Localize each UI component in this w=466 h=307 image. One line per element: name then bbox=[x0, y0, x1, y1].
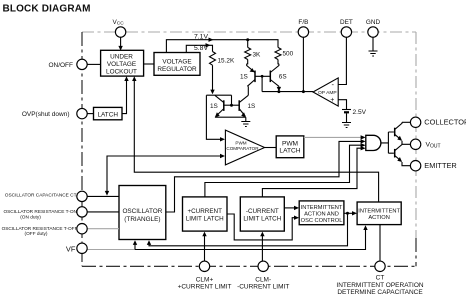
svg-text:LATCH: LATCH bbox=[97, 112, 118, 119]
svg-text:OSC CONTROL: OSC CONTROL bbox=[301, 218, 343, 224]
wire: comparator top input feed bbox=[206, 95, 221, 139]
svg-text:DET: DET bbox=[340, 19, 353, 26]
wire: output node line to op-amp bbox=[262, 91, 313, 93]
pin F/B bbox=[298, 27, 308, 37]
wire: F/B drop to output node bbox=[302, 37, 304, 91]
svg-text:15.2K: 15.2K bbox=[218, 57, 235, 64]
wire: CT pin to oscillator bbox=[87, 195, 119, 197]
svg-text:6S: 6S bbox=[279, 73, 287, 80]
wire: lower pair base tie bbox=[224, 104, 239, 106]
svg-text:GND: GND bbox=[366, 19, 381, 26]
wire: lower pair emitter tie to ground bbox=[215, 117, 246, 121]
pin CT left bbox=[77, 191, 87, 201]
svg-text:VOUT: VOUT bbox=[426, 142, 441, 150]
svg-text:LATCH: LATCH bbox=[279, 148, 300, 155]
svg-text:ON/OFF: ON/OFF bbox=[48, 62, 73, 69]
svg-text:COLLECTOR: COLLECTOR bbox=[424, 118, 466, 127]
svg-text:(ON duty): (ON duty) bbox=[20, 214, 41, 220]
wire: bus2 osc arrow to intermittent wire junction bbox=[149, 213, 348, 246]
wire: vout rail bbox=[402, 141, 410, 145]
svg-text:LIMIT LATCH: LIMIT LATCH bbox=[243, 215, 281, 222]
wire: +CLL output to INT-AND-OSC input2 bbox=[227, 214, 296, 240]
pin EMITTER bbox=[410, 161, 420, 171]
transistor Q1 output upper bbox=[394, 128, 396, 137]
wire: comparator to PWM latch bbox=[265, 147, 277, 149]
svg-text:LOCKOUT: LOCKOUT bbox=[106, 68, 137, 75]
svg-text:VOLTAGE: VOLTAGE bbox=[107, 61, 136, 68]
resistor 3K bbox=[245, 47, 251, 59]
svg-text:CT: CT bbox=[376, 275, 385, 282]
wire: DET to op-amp minus bbox=[338, 37, 346, 84]
svg-text:COMPARATOR: COMPARATOR bbox=[226, 146, 259, 151]
wire: -CLL output to INT-AND-OSC input1 bbox=[284, 207, 295, 209]
wire: VF riser into oscillator bottom bbox=[134, 243, 136, 249]
wire: CLM- riser into -CLL bbox=[261, 235, 263, 261]
svg-text:CLM+: CLM+ bbox=[196, 276, 214, 283]
battery 2.5V bbox=[342, 109, 351, 111]
svg-text:3K: 3K bbox=[253, 52, 262, 59]
box: +CURRENT LIMIT LATCH bbox=[183, 197, 228, 231]
wire: mirror tap line bbox=[206, 95, 231, 105]
svg-text:1S: 1S bbox=[240, 73, 248, 80]
wire: oscillator output to bus and AND input2 bbox=[166, 141, 361, 212]
wire: comparator bottom input feed from CT line bbox=[107, 156, 222, 192]
box: UNDER VOLTAGE LOCKOUT bbox=[101, 50, 144, 76]
svg-text:INTERMITTENT: INTERMITTENT bbox=[301, 205, 343, 211]
wire: UVLO to VOLTAGE REGULATOR bbox=[144, 63, 154, 65]
ground (GND pin) bbox=[369, 51, 378, 56]
svg-text:CLM-: CLM- bbox=[255, 276, 271, 283]
svg-text:EMITTER: EMITTER bbox=[424, 161, 456, 170]
wire: PWM latch to AND gate input1 (gray) bbox=[304, 136, 361, 138]
AND gate bbox=[366, 135, 381, 150]
wire: bus to INTERMITTENT ACTION bottom bbox=[135, 228, 366, 250]
box: OSCILLATOR (TRIANGLE) bbox=[119, 186, 166, 240]
svg-text:UNDER: UNDER bbox=[110, 54, 133, 61]
svg-text:OP AMP: OP AMP bbox=[318, 90, 337, 96]
wire: ON/OFF to UVLO bbox=[87, 63, 100, 65]
pin CLM+ bbox=[199, 261, 209, 271]
pin GND bbox=[368, 27, 378, 37]
box: LATCH bbox=[94, 107, 123, 119]
ground (mirror) bbox=[241, 122, 250, 127]
pin ON/OFF bbox=[77, 59, 87, 69]
wire: battery to ground bbox=[346, 113, 348, 122]
svg-text:(TRIANGLE): (TRIANGLE) bbox=[124, 216, 160, 223]
transistor 1S lower-left bbox=[223, 100, 225, 111]
comparator PWM bbox=[225, 130, 264, 165]
wire: collector rail bbox=[402, 121, 410, 123]
svg-text:1S: 1S bbox=[210, 103, 218, 110]
svg-text:+CURRENT LIMIT: +CURRENT LIMIT bbox=[178, 283, 232, 290]
wire: 5.8V line to 15.2K bbox=[186, 45, 212, 52]
svg-text:+CURRENT: +CURRENT bbox=[187, 208, 222, 215]
wire: OVP to LATCH bbox=[87, 113, 93, 115]
svg-text:5.8V: 5.8V bbox=[194, 45, 208, 52]
svg-text:BLOCK DIAGRAM: BLOCK DIAGRAM bbox=[3, 3, 91, 14]
wire: 3K to 1S collector bbox=[247, 60, 248, 64]
wire: upper mirror base tie with drop to output node bbox=[255, 76, 270, 91]
svg-text:INTERMITTENT OPERATION: INTERMITTENT OPERATION bbox=[336, 282, 423, 289]
svg-text:ACTION AND: ACTION AND bbox=[304, 211, 339, 217]
wire: GND pin to ground bbox=[372, 37, 374, 50]
svg-text:-CURRENT: -CURRENT bbox=[246, 208, 279, 215]
wire: VF pin (gray) bbox=[87, 249, 135, 251]
wire: AND output to output transistors bbox=[381, 132, 394, 153]
svg-text:ACTION: ACTION bbox=[368, 215, 390, 221]
wire: LATCH up into UVLO bbox=[122, 80, 127, 114]
transistor 1S upper bbox=[254, 71, 256, 83]
wire: upper 1S emitter to lower mirror collector bbox=[247, 86, 249, 95]
svg-text:INTERMITTENT: INTERMITTENT bbox=[358, 209, 400, 215]
wire: 15.2K down to mirror node bbox=[212, 65, 214, 91]
svg-text:7.1V: 7.1V bbox=[194, 34, 208, 41]
pin OVP bbox=[77, 108, 87, 118]
transistor 6S upper bbox=[269, 71, 271, 83]
svg-text:DETERMINE CAPACITANCE: DETERMINE CAPACITANCE bbox=[337, 289, 423, 296]
wire: -CLL top to bus and AND input4 bbox=[262, 148, 361, 197]
svg-text:VOLTAGE: VOLTAGE bbox=[162, 58, 191, 65]
svg-text:1S: 1S bbox=[248, 103, 256, 110]
svg-text:OSCILLATOR RESISTANCE T-OFF: OSCILLATOR RESISTANCE T-OFF bbox=[2, 226, 78, 232]
wire: Vcc drop into UVLO bbox=[120, 37, 122, 47]
svg-text:OSCILLATOR RESISTANCE T-ON: OSCILLATOR RESISTANCE T-ON bbox=[3, 209, 77, 215]
svg-text:VF: VF bbox=[66, 244, 76, 253]
box: PWM LATCH bbox=[276, 136, 304, 158]
pin CT bottom bbox=[375, 261, 385, 271]
svg-text:OSCILLATOR: OSCILLATOR bbox=[122, 208, 162, 215]
pin T-ON bbox=[77, 207, 87, 217]
op-amp U1 bbox=[313, 78, 338, 106]
pin DET bbox=[341, 27, 351, 37]
svg-text:PWM: PWM bbox=[235, 140, 246, 145]
svg-text:OVP(shut down): OVP(shut down) bbox=[22, 111, 70, 118]
wire: 7.1V rail bbox=[166, 40, 278, 53]
wire: 500 to 6S collector bbox=[277, 60, 280, 64]
svg-text:LIMIT LATCH: LIMIT LATCH bbox=[186, 215, 224, 222]
IC boundary dash-dot frame bbox=[82, 32, 416, 238]
wire: emitter rail bbox=[402, 162, 410, 166]
svg-text:OSCILLATOR CAPACITANCE CT: OSCILLATOR CAPACITANCE CT bbox=[5, 193, 77, 199]
wire: CLM+ riser into +CLL bbox=[204, 235, 206, 261]
wire: T-ON pin to oscillator bbox=[87, 211, 119, 213]
transistor 1S lower-right bbox=[238, 100, 240, 111]
resistor 15.2K bbox=[210, 52, 216, 66]
svg-text:F/B: F/B bbox=[298, 19, 308, 26]
svg-text:REGULATOR: REGULATOR bbox=[157, 66, 197, 73]
pin VF bbox=[77, 243, 87, 253]
resistor 500 bbox=[275, 47, 281, 59]
svg-text:500: 500 bbox=[283, 51, 294, 58]
wire: T-OFF pin to oscillator (gray) bbox=[87, 228, 119, 230]
pin COLLECTOR bbox=[410, 117, 420, 127]
box: -CURRENT LIMIT LATCH bbox=[240, 197, 284, 231]
svg-text:2.5V: 2.5V bbox=[353, 109, 367, 116]
wire: CT bottom riser into INTERMITTENT ACTION bbox=[379, 225, 381, 262]
pin T-OFF bbox=[77, 224, 87, 234]
pin Vcc bbox=[115, 27, 125, 37]
pin CLM- bbox=[258, 261, 268, 271]
pin VOUT bbox=[410, 139, 420, 149]
wire: INT-AND-OSC to INTERMITTENT ACTION bbox=[344, 212, 354, 214]
wire: 6S emitter drop bbox=[278, 86, 280, 88]
ground (battery) bbox=[342, 123, 351, 128]
wire: UVLO long vertical to bus and INTERMITTENT ACTION top bbox=[134, 80, 378, 203]
box: VOLTAGE REGULATOR bbox=[154, 53, 200, 76]
box: INTERMITTENT ACTION bbox=[357, 202, 401, 225]
transistor Q2 output lower bbox=[394, 149, 396, 158]
box: INTERMITTENT ACTION AND OSC CONTROL bbox=[299, 201, 344, 225]
wire: op-amp plus to 2.5V bbox=[338, 100, 346, 109]
svg-text:(OFF duty): (OFF duty) bbox=[25, 231, 48, 237]
svg-text:-CURRENT LIMIT: -CURRENT LIMIT bbox=[237, 283, 289, 290]
wire: +CLL top to bus and AND input3 bbox=[205, 145, 361, 197]
svg-text:+: + bbox=[330, 97, 334, 104]
